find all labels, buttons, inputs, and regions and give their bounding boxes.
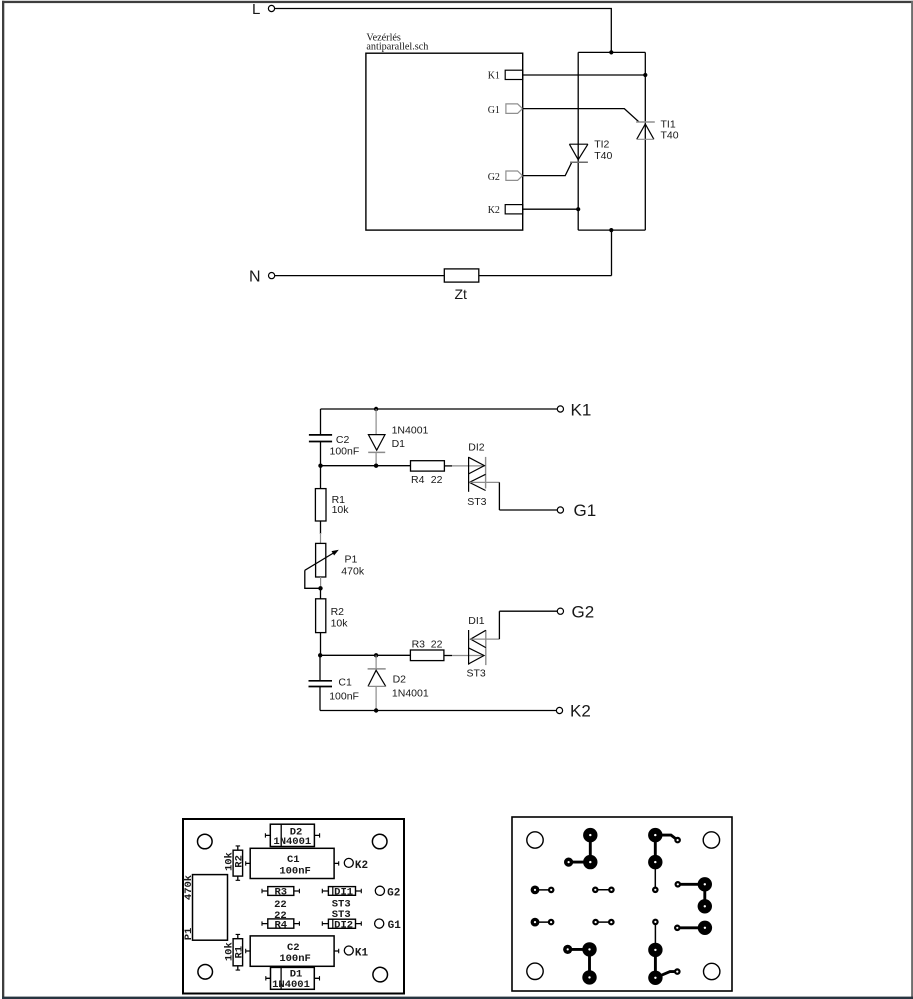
svg-text:100nF: 100nF	[330, 445, 360, 457]
wire P1 to R2	[320, 588, 322, 599]
svg-text:10k: 10k	[223, 942, 235, 961]
trace K1 vertical	[654, 835, 657, 862]
pad C2 big	[583, 855, 597, 869]
pin G1 of block	[488, 104, 523, 116]
resistor R4 package	[262, 919, 299, 931]
junction row2 left	[318, 464, 322, 468]
pad D2 cathode big	[648, 971, 662, 985]
page border bottom	[2, 997, 913, 999]
mounting hole top-left	[527, 832, 543, 848]
wire DI1 out	[471, 638, 500, 640]
pad R3 right small	[548, 919, 555, 926]
wire row2	[321, 465, 411, 467]
junction P1 wiper	[318, 586, 322, 590]
wire row2 to R1	[320, 466, 322, 489]
svg-text:G1: G1	[488, 105, 500, 116]
pad G1 big lower	[698, 899, 712, 913]
svg-text:K2: K2	[488, 205, 500, 216]
pad K2 small	[674, 968, 681, 975]
node L	[268, 5, 274, 11]
wire triac loop right edge	[644, 52, 646, 230]
pad R4 right small	[548, 887, 555, 894]
wire L to top of triac loop	[275, 9, 612, 53]
wire loop bottom to N row	[479, 230, 612, 276]
svg-text:G2: G2	[572, 603, 595, 622]
pad R2 medium	[563, 945, 572, 954]
svg-text:TI2: TI2	[594, 139, 609, 151]
pad DI2 small	[652, 887, 659, 894]
capacitor C2 package	[246, 936, 339, 966]
pad D1 cathode big	[648, 828, 662, 842]
trace C1 net horizontal	[568, 948, 590, 951]
svg-text:K1: K1	[488, 70, 500, 81]
node K1 terminal	[557, 406, 563, 412]
svg-text:1N4001: 1N4001	[272, 979, 310, 991]
pad G2 small	[674, 925, 681, 932]
svg-text:C1: C1	[287, 854, 300, 866]
svg-text:10k: 10k	[223, 852, 235, 871]
pad G2	[375, 886, 400, 899]
wire N	[275, 275, 445, 277]
pad center upper right small	[608, 887, 615, 894]
wire P1 wiper	[305, 570, 321, 588]
wire to G1	[499, 482, 557, 510]
svg-text:470k: 470k	[341, 566, 365, 578]
pin K1 of block	[488, 70, 523, 81]
junction D1 top	[374, 407, 378, 411]
svg-text:470k: 470k	[183, 875, 195, 900]
resistor R4	[411, 461, 445, 487]
svg-text:K1: K1	[355, 947, 369, 959]
svg-text:G1: G1	[574, 501, 597, 520]
svg-text:K1: K1	[571, 400, 592, 419]
pad D1 anode big	[583, 828, 597, 842]
svg-text:10k: 10k	[332, 504, 350, 516]
pad DI1 small	[652, 919, 659, 926]
diac DI1 ST3	[467, 615, 486, 680]
node G2 terminal	[557, 608, 563, 614]
potentiometer P1 package	[183, 875, 228, 941]
svg-text:P1: P1	[345, 554, 358, 566]
page border right	[911, 1, 913, 998]
page border left	[2, 1, 4, 997]
svg-text:1N4001: 1N4001	[392, 688, 429, 700]
trace K2 elbow	[655, 972, 677, 978]
diode D1	[368, 409, 428, 466]
pad R1 medium	[564, 858, 573, 867]
svg-text:R3: R3	[412, 638, 426, 650]
svg-text:K2: K2	[355, 860, 368, 872]
control block box	[366, 53, 523, 230]
trace C2 net horizontal	[569, 861, 591, 864]
svg-text:22: 22	[431, 638, 443, 650]
svg-text:1N4001: 1N4001	[392, 424, 429, 436]
thyristor TI1	[636, 118, 679, 141]
wire R1 to P1	[320, 521, 322, 534]
pad K1 small	[674, 837, 681, 844]
svg-text:22: 22	[431, 474, 443, 486]
resistor R1	[315, 489, 349, 521]
pad K1	[344, 946, 368, 959]
svg-text:DI2: DI2	[334, 920, 353, 932]
pad C1 big	[582, 942, 596, 956]
mounting hole bottom-left	[527, 963, 543, 979]
mounting hole bottom-left	[198, 965, 213, 980]
svg-text:L: L	[252, 1, 260, 18]
wire triac loop top edge	[578, 51, 645, 53]
resistor Zt	[444, 269, 479, 302]
svg-text:ST3: ST3	[467, 668, 486, 680]
diode D2 package	[265, 824, 319, 848]
wire triac loop bottom edge	[578, 229, 645, 231]
svg-text:G2: G2	[488, 172, 500, 183]
svg-text:T40: T40	[661, 129, 679, 141]
page border top	[2, 1, 913, 3]
svg-text:R4: R4	[411, 474, 425, 486]
mounting hole top-right	[372, 834, 387, 849]
pad center upper left small	[592, 887, 599, 894]
wire DI2 out	[469, 481, 499, 483]
wire R3 to DI1	[444, 655, 452, 657]
pad G1 small	[675, 881, 682, 888]
wire K2	[523, 208, 579, 210]
trace thin to DI2	[654, 862, 656, 890]
node K2 terminal	[556, 707, 562, 713]
pad R3 left medium	[531, 918, 540, 927]
trace C2 net vertical	[589, 835, 592, 862]
junction K1 right	[643, 73, 647, 77]
wire R2 to row3	[320, 633, 322, 656]
resistor R2 package	[223, 846, 245, 880]
svg-text:T40: T40	[594, 150, 612, 162]
junction bottom of loop	[609, 228, 613, 232]
junction row3 left	[318, 653, 322, 657]
svg-text:DI1: DI1	[334, 887, 353, 899]
pad center lower right small	[608, 919, 615, 926]
pad G2 big	[698, 921, 712, 935]
junction K2 left edge	[576, 207, 580, 211]
resistor R3	[410, 638, 444, 660]
svg-text:P1: P1	[183, 928, 195, 941]
svg-text:1N4001: 1N4001	[273, 836, 311, 848]
svg-text:C1: C1	[338, 676, 352, 688]
svg-text:10k: 10k	[331, 618, 349, 630]
trace K2 vertical	[654, 950, 657, 978]
junction row3 D2	[374, 653, 378, 657]
diode D2	[368, 655, 429, 710]
svg-text:DI1: DI1	[468, 615, 485, 627]
svg-text:R4: R4	[274, 919, 287, 931]
trace G2 horizontal	[677, 926, 705, 929]
pad G1	[375, 919, 402, 932]
mounting hole bottom-right	[373, 967, 388, 982]
svg-text:D1: D1	[392, 438, 406, 450]
drill holes white	[534, 834, 706, 979]
mounting hole top-left	[198, 834, 213, 849]
node G1 terminal	[557, 507, 563, 513]
resistor R2	[316, 599, 349, 633]
trace center pair lower	[596, 921, 612, 923]
diac DI2 ST3	[467, 442, 486, 509]
resistor R3 package	[262, 887, 299, 899]
pad G1 big upper	[698, 877, 712, 891]
wire G1 to TI1 gate	[523, 109, 639, 122]
wire G2 to TI2 gate	[523, 162, 572, 175]
svg-text:K2: K2	[570, 702, 591, 721]
capacitor C1	[309, 676, 359, 702]
wire to G2	[499, 611, 557, 639]
svg-text:Zt: Zt	[455, 286, 468, 302]
right PCB board outline	[512, 817, 732, 991]
svg-text:N: N	[249, 269, 261, 286]
pin K2 of block	[488, 205, 523, 216]
node N	[269, 273, 275, 279]
left PCB board outline	[183, 819, 404, 994]
trace R3 pair	[535, 921, 551, 923]
potentiometer P1	[305, 543, 365, 588]
junction row2 D1	[374, 464, 378, 468]
wire left rail top	[320, 409, 322, 435]
svg-text:G1: G1	[388, 920, 402, 932]
diode DI1 package	[322, 887, 361, 899]
svg-text:R2: R2	[331, 606, 345, 618]
wire triac loop left edge	[577, 52, 579, 230]
junction top of loop	[609, 50, 613, 54]
pin G2 of block	[488, 171, 523, 183]
mounting hole bottom-right	[704, 963, 720, 979]
svg-text:antiparallel.sch: antiparallel.sch	[366, 41, 428, 52]
svg-text:100nF: 100nF	[329, 691, 359, 703]
resistor R1 package	[223, 934, 245, 970]
svg-text:C2: C2	[336, 434, 350, 446]
pad C2 right big	[648, 855, 662, 869]
wire C2 bottom lead	[320, 442, 322, 466]
capacitor C1 package	[246, 848, 339, 878]
pad D2 anode big	[582, 970, 596, 984]
wire K1	[523, 74, 646, 76]
wire row3 to C1	[319, 655, 321, 680]
wire row3	[320, 654, 410, 656]
capacitor C2	[309, 434, 359, 457]
svg-text:R3: R3	[274, 887, 287, 899]
svg-text:DI2: DI2	[468, 442, 485, 454]
trace thin DI1	[654, 922, 656, 950]
trace K1 elbow	[655, 835, 677, 840]
trace C1 net vertical	[588, 949, 591, 977]
pad K2	[344, 858, 368, 872]
diode D1 package	[266, 967, 320, 991]
pad R4 left medium	[531, 886, 540, 895]
diode DI2 package	[322, 919, 361, 931]
wire bottom row K2	[320, 710, 556, 712]
trace center pair upper	[595, 889, 611, 891]
svg-text:100nF: 100nF	[279, 865, 311, 877]
wire R4 to DI2	[444, 465, 452, 467]
svg-text:100nF: 100nF	[279, 953, 311, 965]
wire C1 bottom lead	[319, 687, 321, 711]
pad center lower left small	[592, 919, 599, 926]
trace R4 pair	[535, 889, 551, 891]
junction bottom D2	[374, 708, 378, 712]
svg-text:ST3: ST3	[467, 496, 486, 508]
thyristor TI2	[569, 139, 612, 163]
pad C1 right big	[648, 943, 662, 957]
trace G1 vertical	[703, 884, 706, 906]
trace G1 horizontal	[678, 883, 705, 886]
svg-text:D2: D2	[393, 674, 407, 686]
svg-text:G2: G2	[387, 887, 400, 899]
mounting hole top-right	[703, 832, 719, 848]
wire K1 rail	[321, 408, 558, 410]
